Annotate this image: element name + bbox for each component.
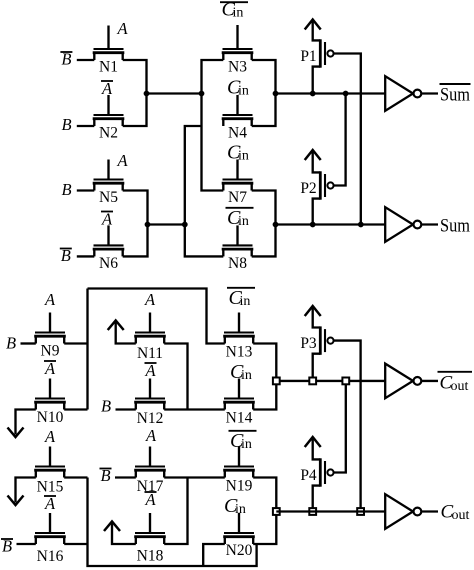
transistor N9 [34,313,66,360]
svg-text:N20: N20 [226,542,253,559]
transistor N4 [222,95,254,142]
label A (gate of N11) [144,290,156,309]
svg-text:Sum: Sum [440,217,471,237]
wire N15 source to ground arrow [16,478,36,503]
wire left rail to bottom wire [88,478,257,567]
inverter U4 (Cout) [385,494,438,529]
label B-bar (N17 input) [100,466,112,485]
label A-bar (gate of N6) [101,210,113,229]
transistor N19 [223,447,255,495]
wire P1 drain to Sum-bar line [313,67,321,94]
transistor P4 [300,437,333,487]
svg-text:N7: N7 [228,189,247,206]
wire N10 source to ground arrow [16,410,36,435]
label A (gate of N9) [44,290,56,309]
transistor N14 [223,379,255,427]
svg-text:N1: N1 [99,59,118,76]
wire N9 drain to left rail [64,342,87,344]
svg-text:B: B [62,115,72,134]
transistor N13 [223,313,255,361]
label B-bar (N1 input) [60,50,72,69]
transistor N11 [134,313,166,363]
node Cout rail junction (square) [273,508,280,515]
node Sum rail junction [273,222,279,228]
transistor N3 [222,25,254,76]
transistor N2 [93,95,125,142]
wire Cout-bar line [276,380,387,382]
label Sum-bar output [440,84,471,106]
label C-in-bar (gate of N13) [227,287,255,309]
svg-text:P4: P4 [300,467,317,484]
inverter U1 (Sum-bar) [385,76,438,111]
node P3 gate tap on Cout (square) [357,508,364,515]
label A (gate of N17) [145,426,157,445]
wire N16 drain to left rail [64,543,87,545]
wire P2 gate to Sum-bar line [334,94,346,186]
wire B-bar to N6 source [77,255,95,257]
wire N3/N4 left rail down to N7 [202,60,224,191]
label Cout-bar output [438,372,473,394]
label A-bar (gate of N2) [101,79,113,98]
wire P3 drain to Cout-bar line [313,354,321,381]
wire N10 drain to left rail [64,408,87,410]
inverter U3 (Cout-bar) [385,364,438,399]
svg-text:in: in [235,502,246,517]
wire P1 gate to Sum line [334,54,361,225]
label A-bar (gate of N10) [44,359,56,378]
wire Sum-bar line [276,92,386,94]
transistor N20 [223,513,255,559]
svg-text:B: B [101,397,111,416]
wire P4 drain to Cout line [313,486,321,512]
wire N13/N14 right rail [253,344,276,410]
label C-in (gate of N4) [227,77,249,99]
ground arrow (N15) [8,496,24,506]
svg-text:N4: N4 [228,125,247,142]
wire N19/N20 right rail [253,478,276,545]
node left rail junction [199,91,205,97]
svg-text:in: in [238,84,249,99]
label B (N5 input) [62,180,72,199]
node P4 drain junction (square) [309,508,316,515]
svg-text:P3: P3 [300,335,317,352]
label B-bar (N6 input) [60,246,72,265]
svg-text:in: in [241,437,252,452]
wire P4 gate to Cout-bar line [334,381,346,473]
wire B to N2 source [77,125,95,127]
power VDD arrow (N11) [108,321,124,331]
transistor N8 [222,225,254,272]
node P4 gate tap on Cout-bar (square) [342,378,349,385]
svg-text:N12: N12 [137,410,164,427]
svg-text:N14: N14 [226,410,253,427]
transistor P3 [300,306,333,355]
svg-text:N15: N15 [37,479,64,496]
wire N1/N2 drain rail [123,60,147,126]
transistor N17 [134,447,166,496]
wire N5/N6 output to left rail [148,223,185,225]
transistor N10 [34,379,66,427]
svg-text:A: A [145,426,157,445]
wire Sum line [276,223,386,225]
wire N7/N8 right rail [252,191,276,257]
transistor N5 [93,160,125,207]
node P2 drain junction [310,222,316,228]
label A-bar (gate of N16) [44,494,56,513]
node N5/N6 output junction [145,222,151,228]
wire B to N5 source [77,189,95,191]
node left rail Sum junction [182,222,188,228]
svg-text:A: A [144,290,156,309]
inverter U2 (Sum) [385,207,438,242]
wire N5/N6 drain rail [123,191,148,257]
svg-text:A: A [44,290,56,309]
svg-text:A: A [116,19,128,38]
label Sum output [440,217,471,237]
wire N1/N2 output to N3/N4 source rail [147,92,202,94]
label C-in (gate of N14) [230,361,252,383]
svg-text:in: in [233,6,244,21]
svg-text:Sum: Sum [440,86,471,106]
svg-text:N10: N10 [37,409,64,426]
svg-text:N5: N5 [99,189,118,206]
label B (N2 input) [62,115,72,134]
transistor N1 [93,26,125,76]
node N1/N2 output junction [144,91,150,97]
node P3 drain junction (square) [309,378,316,385]
svg-text:N19: N19 [226,478,253,495]
wire B to N9 source [21,342,36,344]
transistor N6 [93,225,125,272]
svg-text:N11: N11 [137,345,163,362]
wire B-bar to N16 source [17,543,36,545]
node P1 drain junction [310,91,316,97]
svg-text:B: B [62,180,72,199]
svg-text:P2: P2 [300,180,316,197]
svg-text:N18: N18 [137,548,164,565]
svg-text:out: out [452,508,470,523]
svg-text:A: A [44,427,56,446]
wire lower-half left rail [86,289,88,410]
wire B-bar to N1 source [77,59,95,61]
label B-bar (N16 input) [1,537,13,556]
wire P3 gate to Cout line [334,341,361,512]
label A (gate of N15) [44,427,56,446]
svg-text:N16: N16 [37,548,64,565]
svg-text:N6: N6 [99,255,118,272]
svg-text:in: in [240,294,251,309]
wire N11 source to VDD arrow [116,322,136,344]
transistor P2 [300,150,333,200]
wire N12 drain to N14 source [164,408,225,410]
wire N15 drain to left rail [64,476,87,478]
label C-in-bar (gate of N8) [226,207,254,229]
node P1 gate tap on Sum [358,222,364,228]
transistor N7 [222,160,254,207]
svg-text:P1: P1 [300,48,316,65]
svg-text:N8: N8 [228,255,247,272]
svg-text:N2: N2 [99,125,118,142]
label C-in (gate of N7) [227,142,249,164]
wire mid rail N17 to N18 [164,478,187,545]
svg-text:in: in [238,214,249,229]
svg-text:out: out [451,379,469,394]
node Cout-bar rail junction (square) [273,378,280,385]
wire N17 drain to N19 source [164,476,225,478]
label B (N9 input) [6,333,16,352]
svg-text:N13: N13 [226,344,253,361]
wire N4 source extension down to N8 [185,126,224,256]
node Sum-bar rail junction [273,91,279,97]
node P2 gate tap on Sum-bar [343,91,349,97]
label A (gate of N5) [116,151,128,170]
wire P2 drain to Sum line [313,199,321,225]
label C-in (gate of N20) [224,495,246,517]
wire N11 drain rail to row F [164,344,187,410]
svg-text:N9: N9 [41,343,60,360]
transistor N16 [34,513,66,565]
label B (N12 input) [101,397,111,416]
svg-text:B: B [6,333,16,352]
svg-text:in: in [241,368,252,383]
wire N3/N4 right rail [252,60,276,126]
label Cout output [441,502,470,523]
svg-text:A: A [116,151,128,170]
transistor N12 [134,379,166,428]
label A (gate of N1) [116,19,128,38]
label A-bar (gate of N18) [144,490,156,509]
wire N18 source to VDD arrow [112,523,136,544]
svg-text:in: in [238,149,249,164]
ground arrow (N10) [8,428,24,438]
svg-text:N3: N3 [228,59,247,76]
wire Cout line [276,510,385,512]
label C-in-bar (gate of N3) [220,0,248,21]
transistor N18 [134,513,166,565]
label A-bar (gate of N12) [144,361,156,380]
power VDD arrow (N18) [104,522,120,532]
wire N20 source down to bottom wire [203,544,225,566]
wire B to N12 source [116,408,136,410]
label C-in-bar (gate of N19) [229,430,257,452]
transistor N15 [34,447,66,496]
wire B-bar to N17 source [115,476,136,478]
wire top rail to N13 source [88,289,225,344]
transistor P1 [300,20,333,68]
